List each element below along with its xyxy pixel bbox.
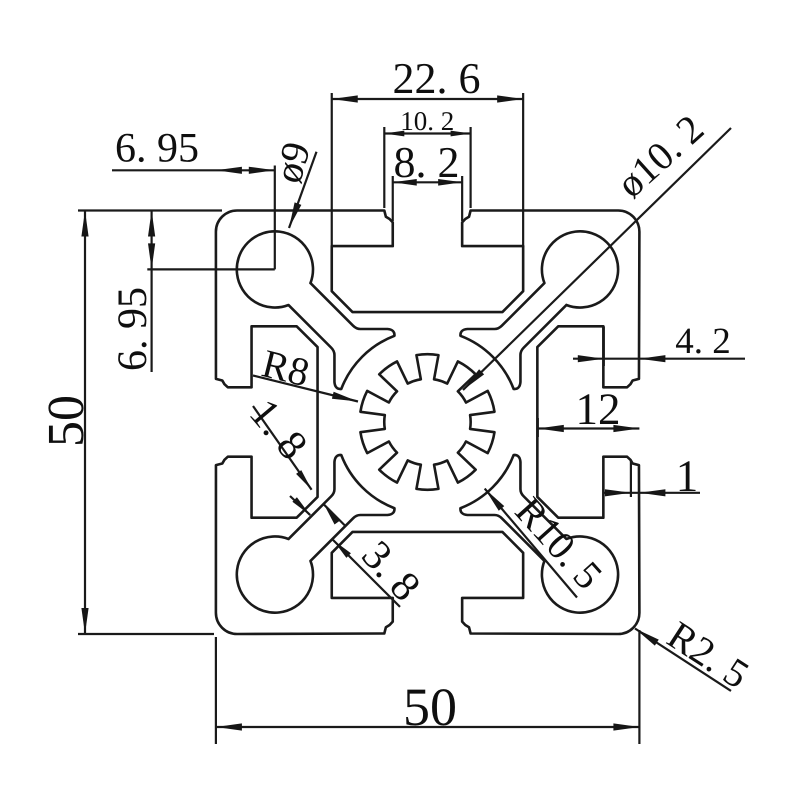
arrow R10.5: [485, 489, 505, 511]
dimension 22.6 extension lines: [331, 93, 333, 247]
arrow 1.8 second: [324, 505, 340, 525]
arrow 1 right (outside): [639, 489, 665, 496]
arrow 8.2 right: [438, 179, 462, 186]
svg-text:22. 6: 22. 6: [393, 54, 481, 103]
dimension 10.2 line: [384, 132, 470, 134]
dimension 1 extension line: [630, 460, 632, 497]
arrow 4.2 left (outside): [578, 355, 604, 362]
leader R2.5: [635, 629, 731, 691]
leader R8: [253, 376, 358, 402]
arrow 6.95v bottom: [148, 243, 155, 269]
leader 1.8 tail: [324, 505, 345, 526]
arrow 12 right: [613, 425, 639, 432]
leader 1.8: [253, 406, 312, 490]
corner hole bottom-left (phi9 keyhole void): [237, 455, 395, 613]
dimension 50 bottom: left extension: [215, 637, 217, 744]
dimension 8.2 extension lines: [392, 176, 394, 221]
arrow 6.95h right: [249, 167, 275, 174]
svg-text:1: 1: [676, 451, 699, 501]
dimension 4.2 line: [573, 358, 745, 360]
arrow 50 bottom left: [216, 723, 242, 730]
svg-text:10. 2: 10. 2: [400, 106, 454, 136]
dimension 6.95 horizontal line: [112, 169, 275, 171]
arrow 12 left: [538, 425, 564, 432]
arrow 22.6 right: [497, 95, 523, 102]
corner hole top-left (phi9 keyhole void): [237, 231, 395, 389]
svg-text:50: 50: [38, 395, 95, 447]
profile outer outline with four T-slots: [216, 211, 640, 635]
arrow 50 bottom right: [613, 723, 639, 730]
dimension 6.95 vertical: hole center horizontal extension: [147, 268, 274, 270]
arrow R2.5: [635, 629, 659, 646]
arrow 50 left top: [81, 211, 88, 237]
arrow 6.95h left: [216, 167, 242, 174]
leader phi10.2: [463, 128, 731, 390]
svg-text:12: 12: [576, 384, 621, 434]
arrow 4.2 right (outside): [639, 355, 665, 362]
arrow 50 left bottom: [81, 608, 88, 634]
leader R10.5: [485, 489, 577, 598]
svg-text:6. 95: 6. 95: [115, 126, 199, 172]
dimension 1 line: [604, 492, 700, 494]
arrow 22.6 left: [332, 95, 358, 102]
svg-text:8. 2: 8. 2: [394, 138, 460, 187]
arrow 3.8 upper (outside): [292, 497, 310, 515]
dimension 4.2 extension line: [603, 327, 605, 367]
arrow R8: [332, 392, 358, 402]
arrow phi10.2: [463, 369, 484, 390]
arrow 3.8 lower (outside): [333, 540, 351, 558]
dimension 50 left: top extension: [78, 209, 222, 211]
arrow 6.95v top: [148, 211, 155, 237]
dimension 6.95 vertical line: [151, 211, 153, 373]
svg-text:50: 50: [403, 677, 457, 737]
dimension 12 extension stub: [537, 418, 539, 437]
dimension 12 line: [538, 427, 640, 429]
svg-text:4. 2: 4. 2: [675, 321, 731, 362]
dimension 6.95 horizontal: extension over hole center: [274, 166, 276, 270]
center gear hole (phi10.2 bore, R8 serrations): [360, 354, 494, 490]
svg-text:6. 95: 6. 95: [110, 287, 156, 371]
dimension 3.8 line: [290, 496, 310, 515]
arrow 8.2 left: [393, 179, 417, 186]
leader phi9: [289, 152, 317, 228]
arrow phi9: [289, 202, 301, 228]
dimension 22.6 line: [332, 98, 523, 100]
corner hole bottom-right (phi9 keyhole void): [460, 455, 618, 613]
arrow 10.2 right: [451, 131, 471, 137]
arrow 1.8 first: [296, 470, 312, 490]
dimension 50 left line: [84, 211, 86, 635]
dimension 10.2 extension lines: [383, 127, 385, 208]
corner hole top-right (phi9 keyhole void): [460, 231, 618, 389]
dimension 8.2 line: [393, 181, 462, 183]
arrow 10.2 left: [384, 131, 404, 137]
dimension 50 left: bottom extension: [78, 633, 214, 635]
arrow 1 left (outside): [605, 489, 631, 496]
dimension 50 bottom: right extension: [638, 630, 640, 744]
dimension 50 bottom line: [216, 726, 640, 728]
